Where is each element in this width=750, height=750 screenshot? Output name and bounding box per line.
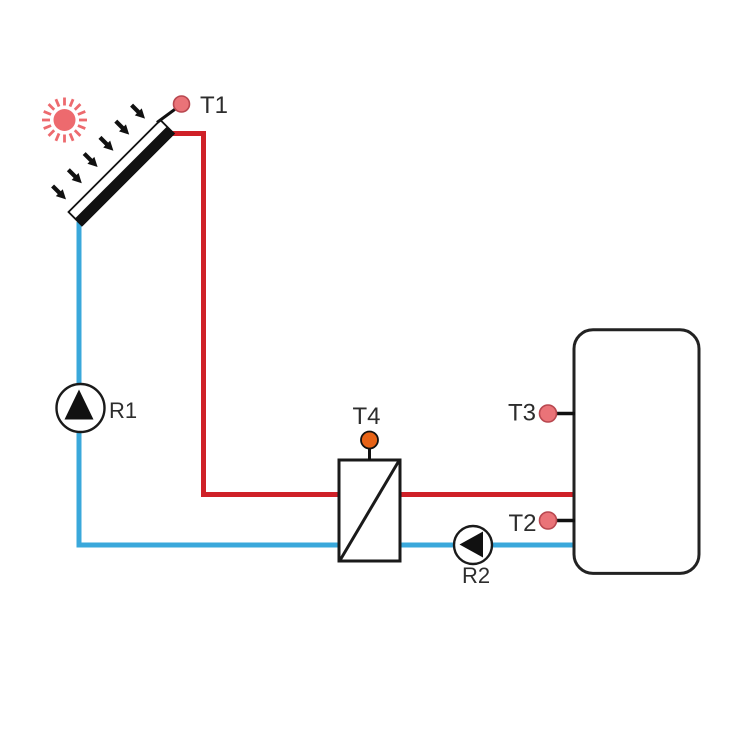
sensor T2 stub	[555, 519, 575, 522]
heat exchanger	[339, 460, 400, 561]
svg-text:T2: T2	[509, 510, 537, 537]
solar collector	[69, 120, 175, 226]
sensor T2	[540, 512, 557, 529]
sensor T4	[361, 432, 378, 449]
blue pipe	[79, 222, 574, 545]
svg-text:T1: T1	[200, 92, 228, 119]
sun	[42, 98, 87, 143]
svg-text:T4: T4	[353, 403, 381, 430]
svg-text:R2: R2	[462, 563, 490, 588]
pump R2	[454, 526, 492, 564]
storage tank	[574, 330, 699, 574]
svg-text:R1: R1	[109, 398, 137, 423]
sun arrows	[49, 102, 148, 203]
sensor T3	[540, 405, 557, 422]
sensor T4 stem	[368, 448, 371, 460]
pump R1	[57, 384, 105, 432]
sensor T1 stem	[157, 109, 176, 123]
sensor T3 stub	[555, 412, 575, 415]
sensor T1	[174, 96, 190, 112]
red pipe	[168, 134, 574, 495]
svg-text:T3: T3	[508, 400, 536, 427]
